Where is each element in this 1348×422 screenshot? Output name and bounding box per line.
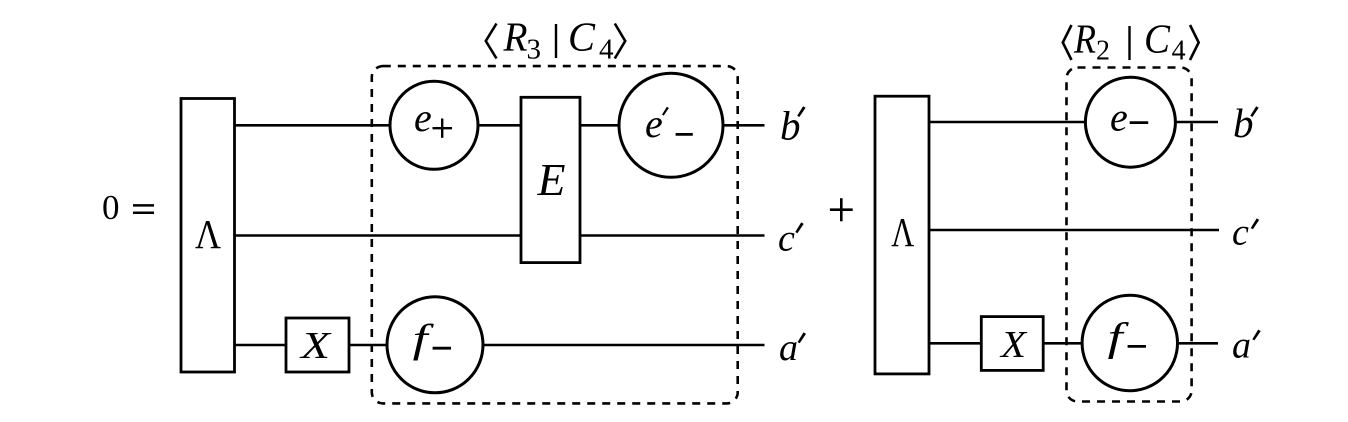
svg-text:E: E — [536, 155, 565, 205]
svg-text:b: b — [1233, 100, 1254, 146]
svg-text:Λ: Λ — [195, 211, 221, 257]
node e+ — [390, 81, 478, 169]
wire c (left circuit, middle) — [234, 234, 765, 237]
label a' (left) — [779, 327, 806, 369]
label f- (left) — [413, 316, 451, 361]
box Lambda (right circuit) — [875, 96, 929, 374]
svg-text:e: e — [645, 101, 663, 146]
wire b (right circuit, top) — [929, 121, 1218, 124]
svg-text:4: 4 — [1172, 36, 1186, 67]
wire c (right circuit, middle) — [929, 229, 1219, 232]
label = — [133, 205, 154, 212]
label + (between circuits) — [830, 198, 853, 221]
dashed group R2C4 — [1067, 68, 1192, 402]
node f- (left circuit) — [387, 297, 483, 393]
node e'- — [619, 73, 723, 177]
gate X (left circuit) — [286, 318, 349, 372]
box Lambda (left circuit) — [181, 99, 235, 373]
label a' (right) — [1232, 324, 1261, 366]
svg-text:0: 0 — [102, 188, 120, 227]
svg-text:C: C — [568, 14, 596, 60]
svg-text:a: a — [1232, 324, 1251, 366]
label e+ — [414, 95, 452, 140]
svg-text:c: c — [1232, 211, 1249, 253]
svg-text:b: b — [780, 103, 801, 149]
node e- — [1085, 77, 1175, 167]
svg-text:Λ: Λ — [891, 209, 914, 255]
label <R3|C4> — [486, 14, 625, 66]
gate X (right circuit) — [981, 317, 1043, 371]
svg-text:X: X — [299, 325, 333, 367]
svg-text:c: c — [778, 218, 795, 260]
svg-text:X: X — [999, 324, 1028, 366]
svg-text:e: e — [1110, 94, 1128, 139]
label c' (left) — [778, 218, 804, 260]
label <R2|C4> — [1063, 16, 1199, 67]
svg-text:C: C — [1144, 16, 1171, 62]
label c' (right) — [1232, 211, 1259, 253]
node f- (right circuit) — [1082, 295, 1177, 390]
svg-text:3: 3 — [527, 34, 542, 66]
wire a (left circuit, bottom) — [234, 344, 765, 347]
label e- — [1110, 94, 1148, 139]
svg-text:2: 2 — [1096, 36, 1110, 67]
wire a (right circuit, bottom) — [929, 342, 1218, 345]
dashed group R3C4 — [372, 66, 738, 403]
svg-text:R: R — [503, 14, 528, 60]
label e'- — [645, 101, 693, 146]
svg-text:R: R — [1073, 16, 1096, 62]
label b' (left) — [780, 103, 806, 149]
box E — [521, 97, 580, 262]
label b' (right) — [1233, 100, 1259, 146]
label f- (right) — [1108, 314, 1146, 359]
svg-text:e: e — [414, 95, 432, 140]
wire b (left circuit, top) — [234, 124, 765, 127]
svg-text:a: a — [779, 327, 798, 369]
svg-text:4: 4 — [599, 34, 614, 66]
